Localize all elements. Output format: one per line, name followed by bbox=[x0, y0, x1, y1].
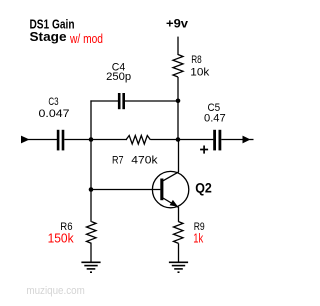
wire node C to base bbox=[91, 189, 160, 191]
svg-text:250p: 250p bbox=[106, 71, 131, 83]
svg-text:w/ mod: w/ mod bbox=[69, 31, 103, 46]
input arrow bbox=[21, 136, 30, 144]
resistor R7 bbox=[126, 136, 150, 145]
svg-text:R8: R8 bbox=[191, 54, 202, 66]
svg-text:Stage: Stage bbox=[30, 29, 67, 44]
node D junction bbox=[176, 99, 181, 104]
wire C4 to node D bbox=[125, 100, 178, 102]
wire node B to collector bbox=[178, 140, 180, 173]
wire R9 to ground bbox=[178, 243, 180, 262]
wire +9v to R8 bbox=[177, 37, 179, 55]
wire input to C3 bbox=[28, 139, 57, 141]
svg-text:1k: 1k bbox=[193, 231, 203, 246]
capacitor C3 bbox=[57, 130, 60, 151]
wire node A to node C bbox=[90, 140, 92, 222]
svg-text:470k: 470k bbox=[131, 154, 158, 166]
svg-text:R7: R7 bbox=[112, 154, 124, 166]
wire node B to C5 bbox=[178, 139, 213, 141]
wire R7 to node B bbox=[150, 139, 178, 141]
wire R8 to node D bbox=[177, 77, 179, 101]
resistor R9 bbox=[174, 222, 184, 244]
node A junction bbox=[89, 137, 94, 142]
wire emitter to R9 bbox=[178, 207, 180, 222]
ground (left) bbox=[81, 262, 100, 272]
svg-text:muzique.com: muzique.com bbox=[26, 285, 84, 297]
svg-text:0.047: 0.047 bbox=[39, 108, 70, 120]
wire node A up bbox=[90, 100, 92, 139]
node B junction bbox=[176, 137, 181, 142]
svg-text:C3: C3 bbox=[48, 96, 58, 108]
label + polarity bbox=[200, 146, 208, 154]
svg-text:150k: 150k bbox=[48, 231, 74, 246]
resistor R8 bbox=[173, 55, 183, 78]
svg-text:+9v: +9v bbox=[166, 17, 188, 31]
svg-text:Q2: Q2 bbox=[195, 180, 212, 195]
capacitor C4 bbox=[118, 93, 121, 109]
wire node D to node B bbox=[177, 101, 179, 140]
wire C5 to output bbox=[221, 139, 243, 141]
ground (right) bbox=[169, 262, 188, 272]
svg-text:0.47: 0.47 bbox=[204, 113, 226, 125]
output arrow bbox=[243, 136, 254, 144]
capacitor C5 bbox=[213, 130, 216, 151]
resistor R6 bbox=[87, 222, 97, 244]
wire C3 to node A bbox=[64, 139, 127, 141]
transistor Q2 bbox=[152, 171, 188, 207]
svg-text:10k: 10k bbox=[190, 67, 210, 79]
wire R6 to ground bbox=[90, 243, 92, 262]
node C junction bbox=[89, 187, 94, 192]
wire to C4 bbox=[90, 100, 118, 102]
